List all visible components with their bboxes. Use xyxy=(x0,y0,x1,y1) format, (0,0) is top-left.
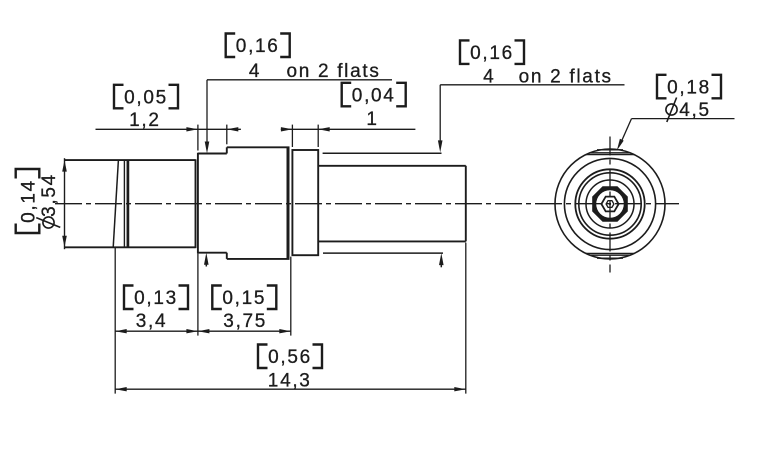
leader: left "4 on 2 flats" xyxy=(204,80,392,267)
side view: hex body section xyxy=(227,147,290,259)
groove line xyxy=(123,160,125,247)
svg-text:0,16: 0,16 xyxy=(470,43,514,64)
svg-text:1,2: 1,2 xyxy=(129,110,161,131)
thick ring edge xyxy=(127,160,130,247)
dimension line Ø3,54 (vertical, coincides with left edge) xyxy=(62,158,67,249)
label Ø4,5 xyxy=(666,98,711,123)
bottom dimension line (3,4 and 3,75) xyxy=(115,329,291,333)
front view dielectric octagon ring xyxy=(592,186,628,222)
svg-text:14,3: 14,3 xyxy=(268,370,312,391)
svg-text:3,75: 3,75 xyxy=(223,311,267,332)
label [0,04] xyxy=(342,83,406,107)
svg-text:0,04: 0,04 xyxy=(352,85,396,106)
front view vertical centerline xyxy=(609,137,611,273)
svg-text:0,15: 0,15 xyxy=(222,288,266,309)
front view outer circle (flange Ø) xyxy=(555,149,665,259)
label [0,56] xyxy=(258,345,322,369)
label [0,13] xyxy=(124,286,188,310)
label 3,75 xyxy=(223,311,267,332)
overall dimension line (14,3) xyxy=(115,387,466,391)
main centerline (common axis) xyxy=(55,203,679,205)
top extension lines xyxy=(198,125,318,151)
label [0,16] second xyxy=(460,40,524,64)
label 3,4 xyxy=(136,311,168,332)
leader: Ø4,5 xyxy=(617,119,735,151)
label [0,16] first xyxy=(226,34,290,58)
label 14,3 xyxy=(268,370,312,391)
side view: flange xyxy=(292,150,318,255)
svg-text:0,13: 0,13 xyxy=(134,288,178,309)
svg-text:4: 4 xyxy=(483,67,495,88)
label Ø3,54 rotated xyxy=(36,173,60,228)
svg-text:0,16: 0,16 xyxy=(236,36,280,57)
barrel bottom flat line xyxy=(323,252,443,254)
front view circle r34.6 xyxy=(575,169,644,238)
label 1 xyxy=(366,109,378,130)
front view contact hexagon xyxy=(601,197,618,212)
front view circle r24 xyxy=(586,180,634,228)
label on 2 flats (second) xyxy=(519,67,613,88)
leader: right "4 on 2 flats" xyxy=(438,85,625,267)
svg-text:0,05: 0,05 xyxy=(124,87,168,108)
label [0,18] xyxy=(657,75,721,99)
svg-text:3,54: 3,54 xyxy=(39,173,60,217)
svg-text:4,5: 4,5 xyxy=(679,100,711,121)
label 4 (first) xyxy=(249,61,261,82)
label [0,14] rotated xyxy=(16,169,40,233)
front view center socket xyxy=(606,201,614,208)
bottom extension lines xyxy=(115,243,466,394)
top dimension line (1,2 and 1) xyxy=(96,127,416,131)
front view circle r30.8 xyxy=(579,173,641,235)
side view: rear barrel cylinder xyxy=(318,166,466,242)
label 4 (second) xyxy=(483,67,495,88)
svg-text:0,18: 0,18 xyxy=(667,77,711,98)
body right thick edge xyxy=(287,147,290,259)
chamfer line xyxy=(113,160,118,247)
label [0,15] xyxy=(212,286,276,310)
label 1,2 xyxy=(129,110,161,131)
svg-text:4: 4 xyxy=(249,61,261,82)
svg-text:on 2 flats: on 2 flats xyxy=(519,67,613,88)
side view: body step section (1,2 wide flat section) xyxy=(198,147,227,259)
svg-text:3,4: 3,4 xyxy=(136,311,168,332)
svg-text:0,56: 0,56 xyxy=(268,347,312,368)
svg-text:0,14: 0,14 xyxy=(19,179,40,223)
barrel top flat line xyxy=(323,152,442,154)
label on 2 flats (first) xyxy=(286,61,380,82)
svg-text:1: 1 xyxy=(366,109,378,130)
front view circle r45 xyxy=(564,158,655,249)
side view: interface cylinder (Ø3,54 section) xyxy=(65,159,196,248)
svg-text:on 2 flats: on 2 flats xyxy=(286,61,380,82)
label [0,05] xyxy=(114,85,178,109)
